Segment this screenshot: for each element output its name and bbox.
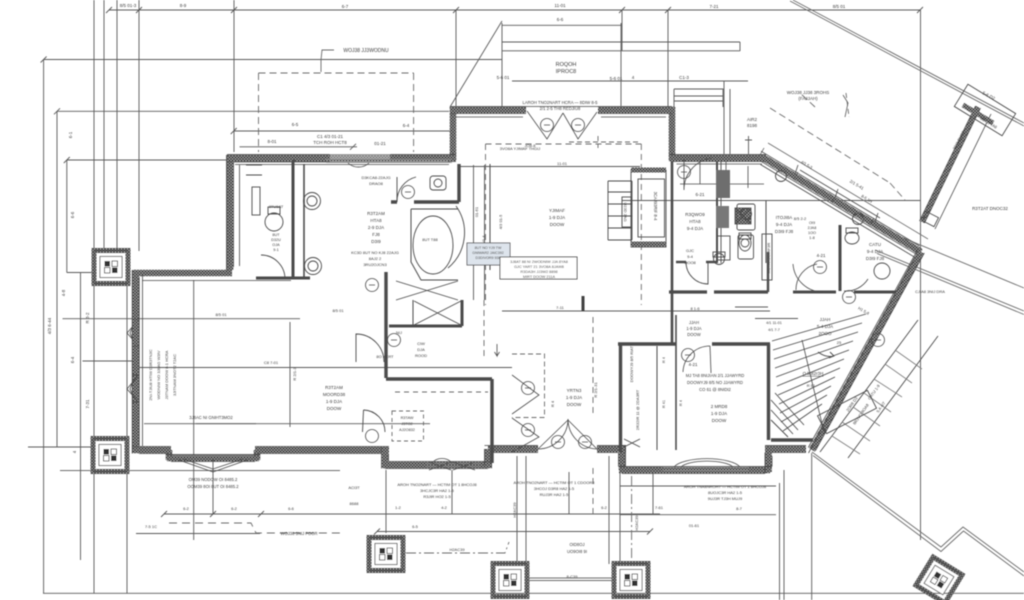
svg-text:25: 25: [837, 340, 842, 345]
svg-text:4/1 7-7: 4/1 7-7: [768, 328, 780, 332]
window sashes left wall: [127, 320, 139, 402]
door arc: hall to nook: [686, 262, 708, 284]
patio double line bottom right with jog: [812, 452, 1024, 576]
basement stair band: [820, 320, 938, 458]
family tray ceiling dashed box: [486, 144, 642, 305]
svg-text:R3T2AM: R3T2AM: [325, 385, 343, 390]
diagonal wall A: [764, 158, 921, 252]
svg-text:WOJ38 JJ38 3ROHS: WOJ38 JJ38 3ROHS: [787, 90, 830, 95]
wing small dims: [755, 318, 798, 320]
bay window sash triangles: [176, 459, 250, 472]
window glazing bottom front: [427, 464, 479, 467]
wing steep wall: [812, 252, 921, 450]
svg-text:CJIA8 3NIJ DRA: CJIA8 3NIJ DRA: [915, 289, 945, 294]
svg-text:YRTN3: YRTN3: [567, 388, 582, 393]
front window X marks: [429, 462, 475, 470]
svg-text:6-2: 6-2: [183, 506, 190, 511]
svg-text:8/5 01: 8/5 01: [332, 308, 344, 313]
svg-text:OOM39 8OI 8UT OI 8485.2: OOM39 8OI 8UT OI 8485.2: [187, 484, 239, 489]
wing hall door arcs: [796, 264, 868, 291]
svg-text:4/1 11-01: 4/1 11-01: [766, 321, 782, 325]
door arc: master bath entry: [356, 334, 384, 362]
svg-text:R3JIR HO2 1-5: R3JIR HO2 1-5: [423, 494, 451, 499]
svg-text:JO8-8: JO8-8: [525, 143, 537, 148]
svg-text:GNIWAR2 JAIC392: GNIWAR2 JAIC392: [472, 251, 503, 255]
svg-text:01-61: 01-61: [474, 206, 479, 217]
svg-text:4: 4: [632, 75, 635, 80]
svg-text:R3TAW: R3TAW: [401, 416, 414, 420]
roof hip diagonal top-centre: [450, 21, 502, 107]
svg-text:9-4 DJA: 9-4 DJA: [776, 222, 792, 227]
svg-text:8198: 8198: [747, 123, 758, 128]
svg-text:2 MRD8: 2 MRD8: [711, 404, 728, 409]
svg-text:6-4: 6-4: [403, 123, 410, 128]
wall A tick dims: [760, 148, 874, 225]
svg-text:3JITNAM 3NOT2 T2AC: 3JITNAM 3NOT2 T2AC: [172, 354, 177, 396]
svg-text:FJ8: FJ8: [372, 232, 380, 237]
svg-text:C1-3: C1-3: [679, 75, 689, 80]
svg-text:H2AC39: H2AC39: [449, 547, 465, 552]
rotated bay top right: [954, 84, 1015, 135]
svg-text:6-5: 6-5: [292, 122, 299, 127]
svg-text:DJA: DJA: [417, 347, 425, 352]
bedroom2 window arcs: [674, 459, 740, 467]
svg-text:D3I9: D3I9: [371, 239, 381, 244]
wall face lines: [234, 161, 450, 163]
svg-text:4/3 01-5: 4/3 01-5: [498, 214, 503, 229]
powder south wall: [676, 261, 717, 263]
fireplace: [631, 170, 666, 247]
svg-text:4/3 6-44: 4/3 6-44: [47, 317, 52, 334]
svg-text:MOORD38: MOORD38: [323, 392, 346, 397]
svg-text:8-9: 8-9: [180, 3, 187, 8]
entry west jog: [488, 449, 538, 467]
svg-text:2NI-TJIU8 HTIW D3R3TN3C: 2NI-TJIU8 HTIW D3R3TN3C: [148, 349, 153, 400]
svg-text:8O KCRT: 8O KCRT: [376, 354, 394, 359]
entry side zigzags: [512, 375, 539, 452]
svg-text:2/1 5-41: 2/1 5-41: [849, 179, 865, 192]
bay roof lines top middle: [502, 23, 740, 108]
svg-text:CATU: CATU: [869, 242, 881, 247]
svg-text:H2AC39: H2AC39: [512, 502, 517, 518]
interior walls: [256, 160, 896, 463]
svg-text:6-6: 6-6: [557, 17, 564, 22]
svg-text:7-31: 7-31: [85, 399, 90, 409]
stair down arrow: [818, 352, 834, 358]
svg-text:AIR2: AIR2: [747, 117, 758, 122]
svg-text:J3TO2: J3TO2: [401, 422, 412, 426]
jog down at x385: [382, 448, 389, 465]
svg-text:4-8: 4-8: [61, 289, 66, 296]
svg-text:R 61: R 61: [807, 383, 816, 388]
svg-text:8UT: 8UT: [272, 233, 280, 237]
toilet room fixtures top: [252, 187, 260, 215]
linen closet walls: [389, 325, 462, 328]
door arc: powder: [684, 158, 712, 190]
svg-text:8/5 01: 8/5 01: [215, 312, 227, 317]
svg-text:DOOWYJ9 8/5 RIAT2: DOOWYJ9 8/5 RIAT2: [629, 343, 634, 382]
left upper exterior wall: [227, 155, 234, 270]
master bath columns: [304, 193, 321, 210]
svg-text:GJC YART 21 3VO8A 8JAW8: GJC YART 21 3VO8A 8JAW8: [514, 265, 564, 269]
powder shower: [735, 208, 751, 224]
bedroom2 south wall: [619, 467, 770, 474]
svg-text:5-4 DJA: 5-4 DJA: [817, 324, 833, 329]
svg-text:DOOW: DOOW: [550, 222, 565, 227]
svg-text:AROH TNO2NART — HCTIM OT 1 CDO: AROH TNO2NART — HCTIM OT 1 CDOOR8: [513, 480, 595, 485]
svg-text:R 3-2: R 3-2: [85, 312, 90, 324]
svg-text:ROTAR3GIRF3R: ROTAR3GIRF3R: [766, 243, 771, 274]
entry east wall: [597, 445, 626, 470]
svg-text:MJ TA8 8NIJIAN 2/1 JJAWYRD: MJ TA8 8NIJIAN 2/1 JJAWYRD: [686, 373, 745, 378]
svg-text:6-6: 6-6: [288, 506, 295, 511]
dash-dot porch centrelines: [406, 476, 632, 560]
family north wall east: [598, 107, 675, 114]
svg-text:D32U: D32U: [271, 238, 281, 242]
stair closet walls: [619, 344, 622, 452]
hall lines: [139, 367, 512, 369]
svg-text:RUJ3R HA2 1-5: RUJ3R HA2 1-5: [540, 492, 569, 497]
right verticals to bottom: [780, 453, 812, 600]
bedroom2 north walls: [618, 342, 770, 345]
svg-text:1-8: 1-8: [809, 236, 815, 240]
svg-text:OID8OJ: OID8OJ: [569, 542, 584, 547]
svg-text:CO 61 @ 8NIDI2: CO 61 @ 8NIDI2: [699, 387, 731, 392]
svg-text:9-1: 9-1: [273, 248, 279, 252]
svg-text:9-4 DJA: 9-4 DJA: [867, 249, 883, 254]
diagonal wall window circles: [776, 171, 787, 182]
svg-text:7-61: 7-61: [655, 505, 664, 510]
media shelves: [608, 181, 632, 240]
svg-text:OOO8: OOO8: [684, 260, 696, 265]
kitchen west wall: [716, 161, 718, 263]
svg-text:R 2/1-3: R 2/1-3: [292, 367, 297, 381]
svg-text:MIRT DOOW 211A: MIRT DOOW 211A: [523, 275, 556, 279]
svg-text:AJ2O832: AJ2O832: [399, 428, 415, 432]
svg-text:6-6: 6-6: [70, 211, 75, 218]
bay window glazing: [172, 455, 254, 457]
svg-text:R 4: R 4: [550, 400, 555, 407]
svg-text:5-6 D2: 5-6 D2: [982, 90, 997, 101]
bath WC wall: [457, 164, 460, 202]
svg-text:7-11: 7-11: [556, 305, 564, 310]
svg-text:GJC: GJC: [686, 248, 694, 253]
lower dims: [28, 446, 93, 448]
wing closet fan shelves: [771, 393, 804, 437]
svg-text:9-4: 9-4: [687, 254, 694, 259]
svg-text:ACI3T: ACI3T: [348, 485, 360, 490]
svg-text:5-6 01: 5-6 01: [610, 76, 623, 81]
svg-text:6-1: 6-1: [68, 131, 73, 138]
column grid symbol helper: [94, 251, 128, 284]
svg-text:11-01: 11-01: [557, 161, 568, 166]
bath2 toilet: [845, 232, 859, 244]
svg-text:O b3t2r3H: O b3t2r3H: [803, 371, 824, 376]
svg-text:3J8AC NI GNIHT3MO2: 3J8AC NI GNIHT3MO2: [189, 415, 233, 420]
planter rotated rect: [818, 390, 877, 433]
svg-text:1-9 DJA: 1-9 DJA: [549, 215, 565, 220]
svg-text:5-6 01: 5-6 01: [497, 75, 510, 80]
toilet master: [265, 213, 283, 231]
svg-text:HTA8: HTA8: [370, 218, 382, 223]
stair rail line: [802, 340, 824, 432]
bottom-left wall: [132, 447, 171, 454]
second master door arcs: [793, 264, 823, 292]
svg-text:1-9 DJA: 1-9 DJA: [566, 395, 582, 400]
svg-text:3CAJ93RIF 8-4: 3CAJ93RIF 8-4: [653, 192, 658, 222]
bath2 walls: [839, 225, 842, 291]
note boxes: [467, 243, 577, 279]
svg-text:R3T2AM: R3T2AM: [367, 211, 385, 216]
ticks on top dim: [106, 7, 923, 13]
svg-text:3HCJC3R HA2 1-5: 3HCJC3R HA2 1-5: [420, 488, 455, 493]
master bath south wall: [391, 200, 459, 203]
kitchen counter edge: [680, 161, 764, 188]
svg-text:ROQOH: ROQOH: [556, 62, 577, 68]
svg-text:8 1-6: 8 1-6: [690, 306, 700, 311]
left long verticals: [44, 60, 127, 594]
window in top-left wall: [326, 160, 452, 163]
door arc: bedroom closet: [261, 255, 285, 279]
svg-text:KC3D 8UT NO KJ8 22AJG: KC3D 8UT NO KJ8 22AJG: [351, 250, 399, 255]
svg-text:D3DIVOR9 938: D3DIVOR9 938: [476, 256, 501, 260]
dim line parallel to wall A: [795, 165, 880, 222]
door arc: master bedroom: [364, 410, 386, 432]
kitchen appliance stack: [716, 170, 730, 198]
svg-text:6-4: 6-4: [70, 356, 75, 363]
svg-text:01-61: 01-61: [689, 523, 700, 528]
svg-text:DOOWYJ9 8/5 NO JJAWYRD: DOOWYJ9 8/5 NO JJAWYRD: [687, 380, 743, 385]
family north wall west: [450, 107, 526, 114]
nook wall: [765, 201, 767, 264]
svg-text:8/5 2-2: 8/5 2-2: [794, 216, 807, 221]
attic access X window marks: [624, 439, 640, 447]
svg-text:6-5: 6-5: [412, 524, 419, 529]
svg-text:2/1 2-5 TH8 REDJIU8: 2/1 2-5 TH8 REDJIU8: [540, 106, 581, 111]
bath2 sink: [874, 263, 890, 279]
svg-text:2OOO: 2OOO: [818, 331, 832, 336]
bay window wall: [167, 450, 259, 460]
svg-text:UO9OI8 9I: UO9OI8 9I: [567, 549, 587, 554]
svg-text:4-21: 4-21: [688, 362, 698, 367]
kitchen island: [737, 204, 755, 230]
window lighten top-left wall: [330, 153, 390, 160]
bedroom2 east jog: [765, 449, 806, 472]
svg-text:DOOW: DOOW: [567, 402, 582, 407]
svg-text:WOJ38 JJ3WODNU: WOJ38 JJ3WODNU: [343, 48, 389, 54]
long dim line above plan left: [63, 318, 301, 320]
porch outline verticals: [517, 456, 620, 564]
svg-text:CIW: CIW: [417, 341, 425, 346]
svg-text:8UOJC3R HA2 1-5: 8UOJC3R HA2 1-5: [708, 490, 743, 495]
family east jog: [669, 107, 676, 161]
svg-text:YJIMAF: YJIMAF: [549, 208, 565, 213]
eave line right (single): [877, 227, 1024, 288]
svg-text:4: 4: [72, 450, 77, 453]
svg-text:9UJ3R TJ3H MUJ9: 9UJ3R TJ3H MUJ9: [708, 496, 743, 501]
svg-text:4/1 5-3: 4/1 5-3: [800, 159, 814, 170]
wall band edge outlines: [227, 155, 456, 162]
door arc: bedroom2: [683, 346, 711, 373]
S-H circles: [366, 119, 885, 449]
svg-text:2R32IR 11 @ 2DA3RT: 2R32IR 11 @ 2DA3RT: [635, 389, 640, 430]
hall dashed centreline: [592, 317, 594, 515]
powder sink: [714, 254, 725, 265]
family/hall wall: [671, 161, 674, 345]
svg-text:4-21: 4-21: [816, 253, 826, 258]
svg-text:2JA8: 2JA8: [808, 226, 817, 230]
wing closet walls: [767, 344, 770, 440]
jog wall master suite: [133, 270, 232, 277]
svg-text:R 41: R 41: [662, 400, 666, 408]
svg-text:DOOW: DOOW: [712, 418, 727, 423]
water softener dashed box: [392, 411, 424, 441]
horizontal ref lines left: [44, 59, 502, 61]
svg-text:3HCOJ D3R8 HA2 1-5: 3HCOJ D3R8 HA2 1-5: [534, 486, 575, 491]
svg-text:6-2: 6-2: [231, 506, 238, 511]
svg-text:3RU2OJCN3: 3RU2OJCN3: [363, 262, 387, 267]
top dimension line: [109, 9, 920, 11]
svg-text:ITOJI8A: ITOJI8A: [776, 215, 792, 220]
dim line mid top: [512, 80, 748, 82]
curved glass wall: [448, 206, 465, 268]
closet X braces: [414, 301, 461, 325]
kitchen north wall: [669, 155, 766, 162]
undowell dashed rectangle top-left: [259, 73, 414, 152]
top-left long wall: [227, 155, 456, 162]
svg-text:HTA8: HTA8: [689, 219, 701, 224]
svg-text:3TU8AT: 3TU8AT: [269, 204, 284, 209]
svg-text:WODNIW NO 3J8AG W3IV: WODNIW NO 3J8AG W3IV: [156, 350, 161, 399]
svg-text:C1 4/3 01-21: C1 4/3 01-21: [317, 134, 344, 139]
powder toilet: [739, 235, 751, 251]
svg-text:8UT NO YJ9 TW: 8UT NO YJ9 TW: [475, 246, 502, 250]
svg-text:WOJ38 3NIJ FOOR: WOJ38 3NIJ FOOR: [281, 531, 318, 536]
property line top right (double): [790, 1, 1024, 126]
svg-text:01-21: 01-21: [374, 141, 386, 146]
svg-text:3J8AT 88 NI 2WODNIW JJA 8YA8: 3J8AT 88 NI 2WODNIW JJA 8YA8: [510, 260, 568, 264]
svg-text:6-7: 6-7: [342, 4, 349, 9]
svg-text:OM39 NODOW OI 8485.2: OM39 NODOW OI 8485.2: [189, 477, 238, 482]
svg-text:1-2: 1-2: [395, 505, 402, 510]
svg-text:9-4 DJA: 9-4 DJA: [687, 226, 703, 231]
entry ceiling dashed box: [512, 354, 545, 418]
svg-text:2-9 DJA: 2-9 DJA: [368, 225, 384, 230]
svg-text:D3KCA8-22AJG: D3KCA8-22AJG: [361, 175, 390, 180]
roofline dashed bottom-left: [169, 523, 340, 533]
svg-text:H2AC39: H2AC39: [634, 515, 639, 531]
door arc: master bath WC: [397, 177, 416, 202]
jog up at x453: [450, 107, 457, 160]
svg-text:R3DA3H JJ3W2 8898: R3DA3H JJ3W2 8898: [520, 270, 557, 274]
svg-text:8UT T88: 8UT T88: [422, 237, 438, 242]
svg-text:IPROC8: IPROC8: [556, 69, 576, 75]
svg-text:ROOD: ROOD: [415, 353, 427, 358]
entry double doors: [538, 420, 597, 449]
wall edge lines: [127, 107, 924, 515]
front window arcs: [348, 163, 452, 463]
svg-text:7-21: 7-21: [709, 4, 719, 9]
tub deck: [411, 209, 458, 280]
svg-text:8/5 01-3: 8/5 01-3: [120, 3, 137, 8]
svg-text:JJAH: JJAH: [689, 320, 699, 325]
svg-text:AROH TNO2NART — HCTIM OT 1 8HC: AROH TNO2NART — HCTIM OT 1 8HCOJ8: [397, 482, 477, 487]
refrigerator box: [762, 234, 772, 280]
french doors family: [527, 111, 597, 139]
svg-text:1-9 DJA: 1-9 DJA: [711, 411, 727, 416]
left exterior wall: [132, 270, 139, 450]
bath sink: [430, 176, 446, 190]
svg-text:R 4: R 4: [679, 400, 683, 406]
top extension verticals: [94, 0, 139, 251]
chimney box: [674, 81, 730, 154]
svg-text:6-21: 6-21: [695, 192, 705, 197]
garage dashed outline right: [770, 93, 905, 200]
bottom wall to jog: [255, 447, 389, 454]
svg-text:C8 7-01: C8 7-01: [264, 360, 279, 365]
svg-text:AROH TNA8NROHT — HCTIM OT 1 8H: AROH TNA8NROHT — HCTIM OT 1 8HCOJ8: [684, 484, 767, 489]
leader to undowell text: [321, 50, 334, 72]
eave line above wall A: [768, 143, 928, 239]
svg-text:8688: 8688: [350, 501, 360, 506]
svg-text:1-9 DJA: 1-9 DJA: [686, 326, 701, 331]
svg-text:8AJ2 2: 8AJ2 2: [369, 256, 382, 261]
svg-text:6-2: 6-2: [601, 505, 608, 510]
svg-text:D3I9 FJ8: D3I9 FJ8: [775, 229, 794, 234]
svg-text:(FAJJAH): (FAJJAH): [798, 96, 818, 101]
svg-text:JJAH: JJAH: [820, 317, 831, 322]
fixtures: [246, 84, 1016, 470]
bottom long line: [43, 592, 1024, 594]
svg-text:U23D 2AG: U23D 2AG: [623, 202, 628, 221]
svg-text:7-5 1C: 7-5 1C: [145, 524, 157, 529]
svg-text:D3I9 FJ8: D3I9 FJ8: [866, 256, 885, 261]
svg-text:R 2/1-31: R 2/1-31: [593, 382, 598, 398]
svg-text:LAROH TNO2NART HCRA — 8DIW 8-5: LAROH TNO2NART HCRA — 8DIW 8-5: [523, 100, 599, 105]
svg-text:4-2: 4-2: [441, 505, 448, 510]
svg-text:DOOW: DOOW: [327, 406, 342, 411]
hall south walls: [669, 290, 768, 293]
columns: [93, 251, 962, 600]
svg-text:R3T2AT DNOC32: R3T2AT DNOC32: [972, 206, 1008, 211]
svg-text:8-C39: 8-C39: [567, 574, 579, 579]
dashed line above family bay: [569, 136, 639, 148]
svg-text:R 4: R 4: [662, 357, 666, 363]
front wall with window: [382, 462, 492, 469]
svg-text:DRAO8: DRAO8: [369, 181, 384, 186]
spa tub: [413, 216, 453, 274]
svg-text:R3QWO9: R3QWO9: [685, 212, 705, 217]
svg-text:1-9 DJA: 1-9 DJA: [326, 399, 342, 404]
svg-text:OI9: OI9: [809, 221, 815, 225]
hatched exterior walls: [132, 107, 921, 472]
wing upper wall band: [922, 107, 978, 222]
svg-text:8/5 01: 8/5 01: [833, 4, 846, 9]
eave double line mid right: [875, 250, 1024, 315]
svg-text:8-7: 8-7: [736, 506, 743, 511]
stair treads: [772, 314, 866, 431]
svg-text:1OO: 1OO: [808, 231, 816, 235]
svg-text:8-01: 8-01: [267, 139, 277, 144]
family/entry wall stub: [582, 296, 585, 311]
bedroom2 dashed tray: [395, 391, 488, 393]
WIC walls: [384, 272, 387, 378]
svg-text:TCH ROH HCT8: TCH ROH HCT8: [313, 140, 347, 145]
svg-text:J3TNAM DOOW 8-1 HCRA: J3TNAM DOOW 8-1 HCRA: [164, 350, 169, 399]
leader arrow: [495, 344, 500, 356]
svg-text:NIJ: NIJ: [396, 330, 402, 335]
toilet room walls: [292, 160, 295, 277]
